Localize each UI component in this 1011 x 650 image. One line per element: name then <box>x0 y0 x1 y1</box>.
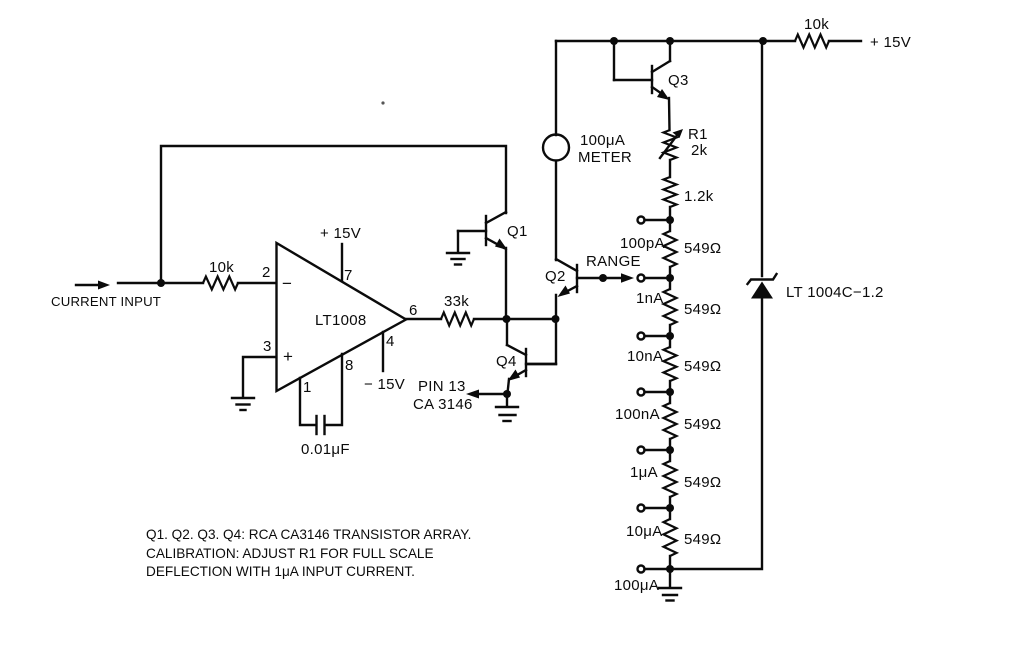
svg-text:Q4: Q4 <box>496 353 517 370</box>
ground pin3 <box>232 398 254 410</box>
resistor 10k supply <box>795 16 829 48</box>
svg-text:CURRENT INPUT: CURRENT INPUT <box>51 294 161 309</box>
node tap 4 contact <box>638 447 645 454</box>
node tap 0 junction <box>666 216 674 224</box>
wire tap 2 <box>645 335 671 337</box>
wire range wiper <box>599 273 634 283</box>
svg-text:100μA: 100μA <box>614 577 659 594</box>
input arrow <box>76 281 110 290</box>
node rail Q3 collector <box>666 37 674 45</box>
svg-text:Q1. Q2. Q3. Q4: RCA CA3146 TRA: Q1. Q2. Q3. Q4: RCA CA3146 TRANSISTOR AR… <box>146 527 471 542</box>
node tap 3 contact <box>638 389 645 396</box>
svg-text:100nA: 100nA <box>615 406 660 423</box>
svg-text:1: 1 <box>303 379 312 396</box>
wire Q2 collector to meter <box>555 161 557 260</box>
svg-text:CALIBRATION: ADJUST R1 FOR FUL: CALIBRATION: ADJUST R1 FOR FULL SCALE <box>146 546 434 561</box>
node input junction <box>157 279 165 287</box>
wire tap 3 <box>645 391 671 393</box>
node rail Q3 base <box>610 37 618 45</box>
svg-text:+: + <box>283 347 293 366</box>
svg-text:DEFLECTION WITH 1μA INPUT CURR: DEFLECTION WITH 1μA INPUT CURRENT. <box>146 564 415 579</box>
wire pin1 <box>300 378 316 425</box>
transistor Q1 <box>458 212 528 250</box>
svg-text:549Ω: 549Ω <box>684 531 721 548</box>
ground ladder bottom <box>659 569 681 601</box>
node Q2 emitter junction <box>552 315 560 323</box>
wire tap 5 <box>645 507 671 509</box>
resistor 33k <box>441 293 474 326</box>
svg-text:0.01μF: 0.01μF <box>301 441 350 458</box>
zener LT1004C-1.2 <box>748 274 884 301</box>
svg-text:4: 4 <box>386 333 395 350</box>
wire Q3 collector to rail <box>669 41 671 61</box>
node tap 0 contact <box>638 217 645 224</box>
wire 1.2k to tap <box>669 207 671 220</box>
wire feedback loop <box>161 146 506 283</box>
transistor Q2 <box>545 259 603 297</box>
note text block <box>146 527 471 579</box>
wire pin3 to ground <box>243 357 276 396</box>
svg-text:7: 7 <box>344 267 353 284</box>
resistor 549ohm #6 <box>664 508 722 569</box>
svg-text:1μA: 1μA <box>630 464 658 481</box>
node pin13 junction <box>503 390 511 398</box>
resistor R1 2k variable <box>660 126 708 160</box>
wire tap 6 <box>645 568 671 570</box>
wire Q3 emitter to R1 <box>668 98 671 130</box>
node rail LT1004 branch <box>759 37 767 45</box>
resistor 1.2k <box>664 177 714 207</box>
ground Q1 base <box>447 231 469 265</box>
resistor 549ohm #4 <box>664 392 722 450</box>
node tap 3 junction <box>666 388 674 396</box>
node tap 6 junction <box>666 565 674 573</box>
svg-text:Q3: Q3 <box>668 72 689 89</box>
svg-text:549Ω: 549Ω <box>684 474 721 491</box>
svg-text:33k: 33k <box>444 293 469 310</box>
svg-text:100μA: 100μA <box>580 132 625 149</box>
wire meter top <box>555 41 557 135</box>
svg-text:LT 1004C−1.2: LT 1004C−1.2 <box>786 284 884 301</box>
wire 33k to node <box>474 318 556 320</box>
node tap 5 contact <box>638 505 645 512</box>
node tap 2 contact <box>638 333 645 340</box>
transistor Q4 <box>496 345 556 381</box>
svg-text:+ 15V: + 15V <box>320 225 361 242</box>
svg-text:Q1: Q1 <box>507 223 528 240</box>
svg-text:549Ω: 549Ω <box>684 416 721 433</box>
wire pin4 <box>382 332 384 371</box>
wire pin6 out <box>406 318 441 320</box>
wire tap 4 <box>645 449 671 451</box>
node tap 2 junction <box>666 332 674 340</box>
svg-text:3: 3 <box>263 338 272 355</box>
svg-text:+ 15V: + 15V <box>870 34 911 51</box>
meter M1 circle <box>543 135 569 161</box>
wire input <box>118 282 203 284</box>
op-amp U1 LT1008 <box>262 243 418 396</box>
resistor 549ohm #2 <box>664 278 722 336</box>
wire pin7 supply <box>341 244 343 281</box>
wire LT1004 branch top <box>761 41 763 276</box>
wire LT1004 branch bottom <box>670 298 762 569</box>
transistor Q3 <box>614 61 689 100</box>
svg-text:CA 3146: CA 3146 <box>413 396 473 413</box>
svg-text:10nA: 10nA <box>627 348 663 365</box>
wire top rail <box>556 40 795 42</box>
wire tap 0 <box>645 219 671 221</box>
node tap 1 junction <box>666 274 674 282</box>
svg-text:549Ω: 549Ω <box>684 358 721 375</box>
svg-text:METER: METER <box>578 149 632 166</box>
svg-text:10k: 10k <box>209 259 234 276</box>
ground Q4 emitter <box>496 394 518 421</box>
wire pin8 <box>325 354 342 425</box>
svg-text:−: − <box>282 274 292 293</box>
wire to pin2 <box>238 282 276 284</box>
svg-text:Q2: Q2 <box>545 268 566 285</box>
svg-text:1.2k: 1.2k <box>684 188 714 205</box>
wire R1 to 1.2k <box>669 160 671 177</box>
wire to +15V <box>829 40 861 42</box>
svg-text:RANGE: RANGE <box>586 253 641 270</box>
wire Q3 base to rail <box>613 41 615 80</box>
wire Q4 emitter down <box>508 379 510 393</box>
wire tap to chain <box>645 277 671 279</box>
svg-text:PIN 13: PIN 13 <box>418 378 466 395</box>
svg-text:LT1008: LT1008 <box>315 312 367 329</box>
node 33k output <box>503 315 511 323</box>
node tap 6 contact <box>638 566 645 573</box>
svg-text:10k: 10k <box>804 16 829 33</box>
svg-text:100pA: 100pA <box>620 235 665 252</box>
svg-text:8: 8 <box>345 357 354 374</box>
svg-text:1nA: 1nA <box>636 290 664 307</box>
capacitor 0.01uF <box>317 416 325 434</box>
svg-text:R1: R1 <box>688 126 708 143</box>
wire Q1 emitter down <box>505 248 507 319</box>
svg-text:549Ω: 549Ω <box>684 240 721 257</box>
wire Q4 collector up <box>506 319 508 345</box>
svg-text:6: 6 <box>409 302 418 319</box>
svg-text:− 15V: − 15V <box>364 376 405 393</box>
svg-text:2k: 2k <box>691 142 708 159</box>
resistor 549ohm #3 <box>664 336 722 392</box>
node tap 1nA contact <box>638 275 645 282</box>
resistor 549ohm #1 <box>664 220 722 278</box>
node tap 4 junction <box>666 446 674 454</box>
wire Q2 emitter to node and Q4 base <box>528 295 556 364</box>
node tap 5 junction <box>666 504 674 512</box>
svg-text:549Ω: 549Ω <box>684 301 721 318</box>
wire pin13 arrow <box>466 390 507 399</box>
svg-text:2: 2 <box>262 264 271 281</box>
resistor 10k input <box>203 259 238 290</box>
resistor 549ohm #5 <box>664 450 722 508</box>
svg-text:10μA: 10μA <box>626 523 663 540</box>
